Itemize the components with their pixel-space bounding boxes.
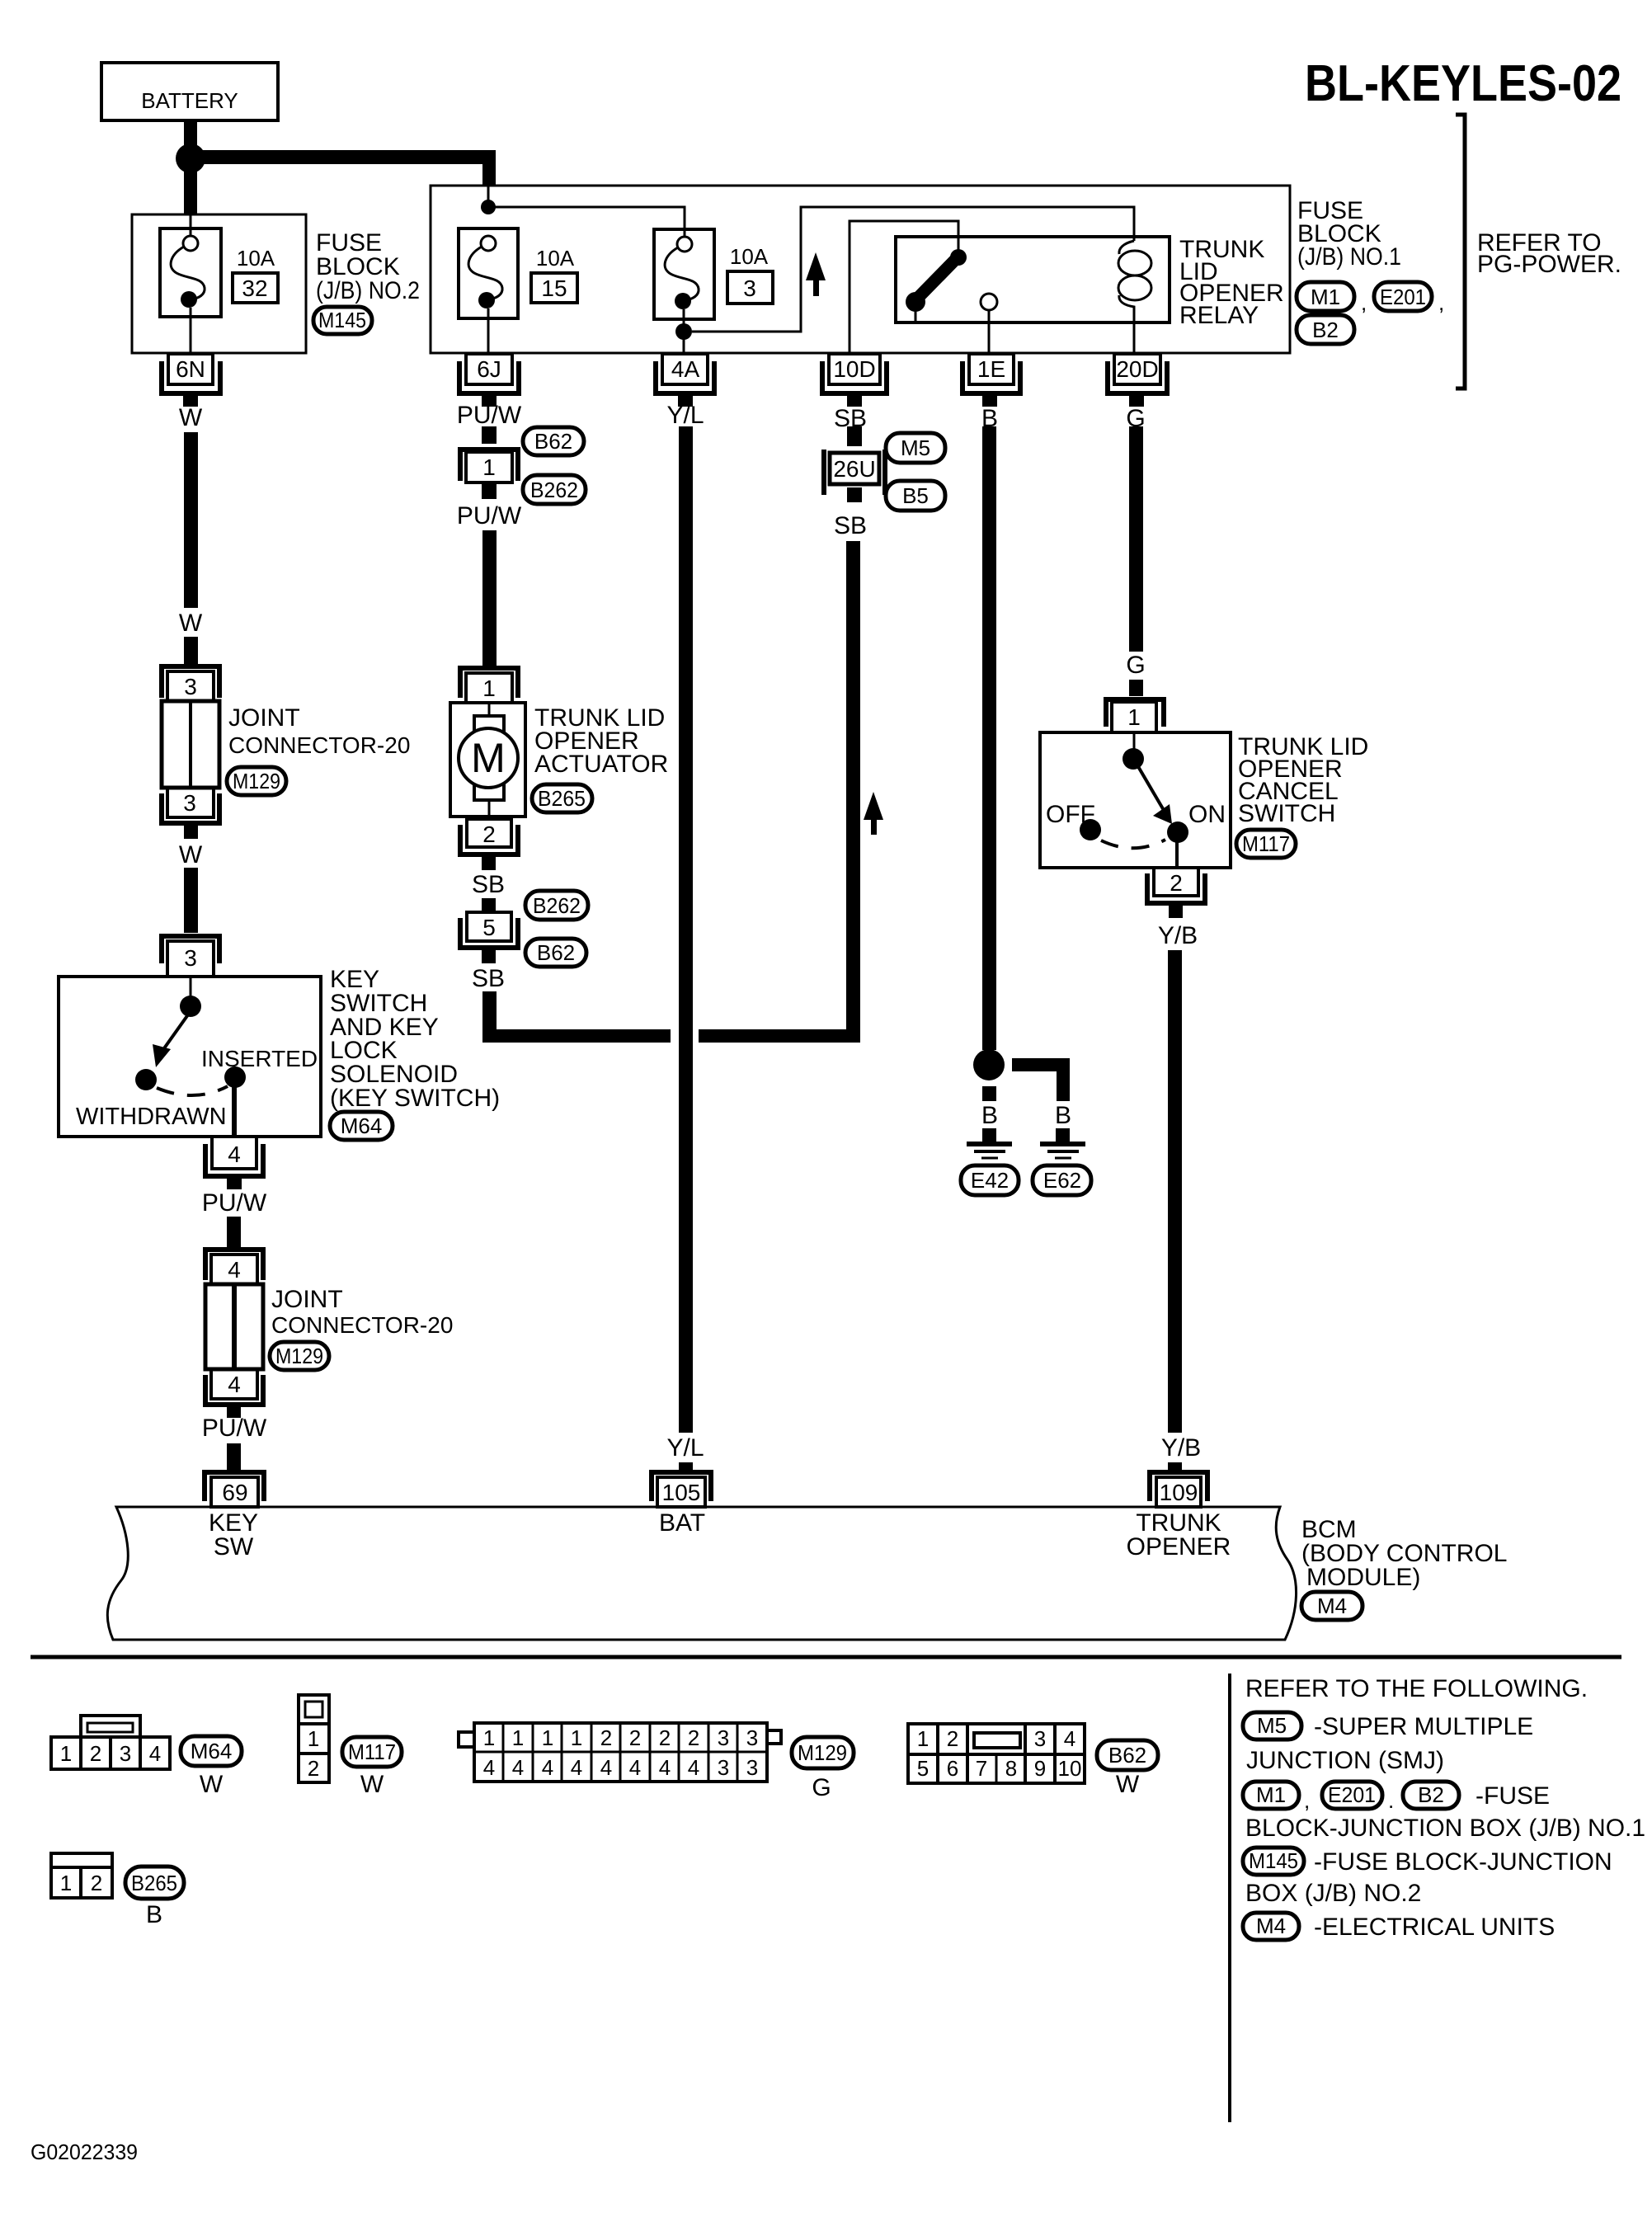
- svg-text:6J: 6J: [477, 356, 501, 382]
- svg-text:OFF: OFF: [1046, 801, 1095, 828]
- connector 26U smj: [824, 450, 885, 502]
- svg-text:20D: 20D: [1116, 356, 1158, 382]
- svg-text:PG-POWER.: PG-POWER.: [1477, 251, 1621, 278]
- svg-text:M145: M145: [1249, 1848, 1298, 1873]
- svg-text:INSERTED: INSERTED: [201, 1046, 318, 1071]
- wire B stub below junction: [982, 1086, 996, 1101]
- svg-text:1E: 1E: [977, 356, 1005, 382]
- svg-text:SB: SB: [834, 512, 867, 539]
- connector B62 oval bottom: [1097, 1740, 1158, 1770]
- svg-text:4: 4: [659, 1755, 671, 1780]
- svg-text:Y/L: Y/L: [666, 402, 704, 429]
- fuse block (J/B) no.1 box: [431, 186, 1290, 353]
- svg-text:BATTERY: BATTERY: [141, 88, 238, 113]
- svg-text:109: 109: [1160, 1480, 1198, 1505]
- connector 6N: [162, 354, 220, 407]
- BCM body control module box: [107, 1507, 1296, 1640]
- svg-text:1: 1: [482, 454, 496, 480]
- svg-text:G02022339: G02022339: [31, 2140, 138, 2164]
- wire SB stub: [482, 898, 496, 912]
- wire PU/W to actuator: [482, 530, 497, 666]
- connector M129 oval lower: [270, 1342, 329, 1370]
- svg-text:6N: 6N: [176, 356, 205, 382]
- svg-text:-SUPER MULTIPLE: -SUPER MULTIPLE: [1314, 1713, 1533, 1740]
- connector 1 actuator: [460, 668, 518, 703]
- cancel switch ON contact: [1167, 821, 1188, 843]
- svg-text:B262: B262: [530, 478, 578, 502]
- svg-text:ON: ON: [1188, 801, 1226, 828]
- svg-text:-FUSE: -FUSE: [1476, 1782, 1550, 1810]
- divider line: [31, 1655, 1621, 1659]
- label fuse block (J/B) no.1: [1297, 197, 1401, 271]
- svg-text:4: 4: [228, 1372, 241, 1397]
- connector M64 oval: [330, 1112, 393, 1140]
- joint connector-20 M129 lower: [205, 1250, 263, 1405]
- connector M5 oval reference: [1243, 1712, 1301, 1739]
- label key switch and key lock solenoid: [330, 966, 500, 1112]
- trunk lid opener relay box: [896, 237, 1170, 322]
- svg-text:SB: SB: [472, 965, 505, 992]
- connector E42 oval: [961, 1165, 1019, 1195]
- svg-text:3: 3: [183, 790, 196, 816]
- wire pin 1 to pivot: [1133, 732, 1136, 749]
- trunk lid opener cancel switch box: [1040, 732, 1231, 868]
- relay NO contact (open circle): [981, 294, 997, 310]
- svg-text:B265: B265: [131, 1871, 177, 1895]
- svg-text:2: 2: [659, 1725, 671, 1750]
- ground E42: [967, 1144, 1012, 1158]
- wire junction down to fuse block no.2: [184, 165, 197, 214]
- relay coil: [1118, 241, 1151, 353]
- svg-text:W: W: [179, 610, 203, 637]
- wire into fuse 32: [190, 214, 192, 237]
- svg-text:M64: M64: [191, 1739, 233, 1763]
- svg-text:JOINT: JOINT: [271, 1286, 343, 1313]
- connector B5 oval: [886, 481, 945, 511]
- connector M117 oval: [1236, 830, 1296, 858]
- wire PU/W to BCM 69: [227, 1443, 241, 1470]
- svg-text:3: 3: [184, 945, 197, 971]
- svg-text:.: .: [1388, 1788, 1394, 1813]
- svg-text:PU/W: PU/W: [202, 1415, 267, 1442]
- wire B to ground E42: [982, 1128, 996, 1142]
- wire W stub below joint connector: [184, 823, 198, 839]
- connector B62 oval: [523, 427, 584, 455]
- svg-text:CONNECTOR-20: CONNECTOR-20: [228, 732, 410, 758]
- key switch inserted contact: [224, 1066, 246, 1088]
- wire pin 3 to pivot: [190, 977, 192, 996]
- svg-text:4: 4: [512, 1755, 524, 1780]
- connector 1 cancel switch: [1106, 699, 1164, 732]
- bracket refer to pg-power: [1456, 115, 1465, 388]
- connector B262 oval lower: [525, 891, 588, 920]
- svg-text:3: 3: [1034, 1726, 1046, 1751]
- svg-text:15: 15: [541, 275, 567, 301]
- svg-text:2: 2: [629, 1725, 641, 1750]
- svg-text:RELAY: RELAY: [1179, 302, 1259, 329]
- svg-text:B: B: [146, 1901, 162, 1928]
- svg-text:M5: M5: [1257, 1713, 1287, 1738]
- connector 6J: [459, 354, 519, 407]
- svg-text:B2: B2: [1418, 1782, 1444, 1807]
- svg-text:(J/B) NO.2: (J/B) NO.2: [316, 277, 420, 304]
- svg-text:4: 4: [228, 1257, 241, 1283]
- svg-text:W: W: [179, 404, 203, 431]
- connector B262 oval: [523, 475, 586, 504]
- svg-text:B62: B62: [1108, 1743, 1146, 1768]
- connector E62 oval: [1033, 1165, 1091, 1195]
- svg-text:4: 4: [1064, 1726, 1075, 1751]
- svg-text:-FUSE BLOCK-JUNCTION: -FUSE BLOCK-JUNCTION: [1314, 1848, 1612, 1876]
- svg-text:B5: B5: [902, 483, 929, 508]
- fuse block (J/B) no.2 M145 box: [132, 214, 306, 353]
- wire G stub: [1129, 680, 1143, 696]
- svg-text:4: 4: [483, 1755, 495, 1780]
- svg-text:M4: M4: [1256, 1914, 1286, 1938]
- connector 69 on BCM: [205, 1472, 264, 1507]
- battery: [101, 63, 278, 120]
- svg-text:B: B: [981, 1102, 998, 1129]
- svg-text:5: 5: [917, 1756, 929, 1781]
- svg-text:2: 2: [688, 1725, 699, 1750]
- wire NO contact to 1E: [988, 310, 991, 353]
- wire from 4A junction up and right to relay coil: [692, 207, 1134, 332]
- ground E62: [1040, 1144, 1085, 1158]
- svg-text:69: 69: [222, 1480, 247, 1505]
- connector 1E: [962, 354, 1020, 407]
- svg-text:W: W: [1116, 1771, 1140, 1798]
- value box 32: [233, 273, 278, 303]
- label trunk lid opener relay: [1179, 236, 1284, 329]
- svg-text:(J/B) NO.1: (J/B) NO.1: [1297, 243, 1401, 271]
- svg-text:Y/B: Y/B: [1158, 922, 1198, 949]
- connector M145 oval reference: [1243, 1848, 1304, 1875]
- connector table B265: [51, 1853, 112, 1898]
- svg-text:E201: E201: [1380, 285, 1426, 309]
- node B junction: [973, 1049, 1005, 1080]
- label joint connector-20 lower: [271, 1286, 453, 1338]
- svg-text:9: 9: [1034, 1756, 1046, 1781]
- wire G main: [1129, 426, 1143, 652]
- svg-text:8: 8: [1005, 1756, 1017, 1781]
- svg-text:B265: B265: [538, 786, 586, 811]
- wire ON contact down: [1175, 841, 1179, 868]
- wire thick into fuse block no.1: [482, 164, 496, 186]
- connector M64 oval bottom: [181, 1736, 242, 1766]
- key switch arm with arrowhead: [153, 1011, 191, 1067]
- wire PU/W stub 6J column: [482, 426, 497, 444]
- svg-text:26U: 26U: [833, 456, 875, 482]
- cancel switch pivot contact: [1123, 748, 1144, 770]
- wire Y/L main: [679, 426, 693, 1433]
- svg-text:M64: M64: [341, 1113, 383, 1138]
- connector table M117: [299, 1695, 329, 1782]
- connector table M64: [51, 1716, 170, 1769]
- svg-text:M129: M129: [798, 1740, 847, 1765]
- svg-text:1: 1: [542, 1725, 553, 1750]
- wire Y/B main: [1168, 950, 1182, 1433]
- svg-text:Y/L: Y/L: [666, 1434, 704, 1462]
- svg-text:,: ,: [1304, 1788, 1310, 1813]
- svg-text:B262: B262: [533, 893, 581, 918]
- svg-text:,: ,: [1361, 290, 1367, 315]
- connector 20D: [1108, 354, 1167, 407]
- dashed arc key switch: [157, 1086, 228, 1095]
- connector table M129: [459, 1723, 781, 1782]
- wire W stub to joint connector: [184, 637, 198, 664]
- svg-text:M117: M117: [348, 1739, 396, 1764]
- svg-text:10A: 10A: [536, 246, 575, 271]
- svg-text:2: 2: [90, 1741, 101, 1766]
- wire battery junction to fuse block no.1 (thick horizontal): [191, 150, 496, 186]
- connector 109 on BCM: [1150, 1472, 1207, 1507]
- connector table B62: [908, 1724, 1085, 1783]
- svg-text:W: W: [200, 1771, 224, 1798]
- wire W to key switch: [184, 868, 198, 933]
- svg-text:SWITCH: SWITCH: [1238, 800, 1335, 827]
- vertical divider bottom right: [1228, 1674, 1231, 2122]
- svg-text:G: G: [812, 1774, 831, 1801]
- svg-text:BOX (J/B) NO.2: BOX (J/B) NO.2: [1245, 1880, 1421, 1907]
- svg-text:3: 3: [743, 275, 756, 301]
- label KEY SW: [209, 1509, 258, 1561]
- svg-text:W: W: [179, 841, 203, 869]
- wire stub below joint connector 2: [227, 1405, 241, 1418]
- wire battery to junction: [184, 120, 197, 150]
- value box 3: [727, 271, 773, 304]
- label BCM: [1301, 1516, 1507, 1591]
- node battery junction: [176, 144, 205, 173]
- svg-text:2: 2: [1170, 870, 1183, 896]
- svg-text:JUNCTION (SMJ): JUNCTION (SMJ): [1246, 1747, 1444, 1774]
- wire B to ground E62: [1056, 1128, 1070, 1142]
- svg-text:3: 3: [746, 1725, 758, 1750]
- connector M4 oval reference: [1243, 1913, 1299, 1940]
- relay switch top contact: [950, 249, 967, 266]
- svg-text:E42: E42: [971, 1168, 1009, 1193]
- wire junction to fuse 3 top: [488, 207, 685, 237]
- connector B2 oval: [1297, 315, 1354, 344]
- svg-text:4: 4: [688, 1755, 699, 1780]
- svg-text:4: 4: [571, 1755, 582, 1780]
- svg-text:G: G: [1126, 652, 1145, 679]
- connector 1 smj B62/B262: [460, 450, 518, 499]
- wire PU/W to joint connector 2: [227, 1217, 241, 1250]
- svg-text:-ELECTRICAL UNITS: -ELECTRICAL UNITS: [1314, 1914, 1555, 1941]
- svg-text:32: 32: [242, 275, 267, 301]
- svg-text:WITHDRAWN: WITHDRAWN: [76, 1104, 227, 1130]
- svg-text:3: 3: [120, 1741, 131, 1766]
- svg-text:1: 1: [308, 1726, 319, 1751]
- fuse 15 10A: [459, 228, 518, 353]
- label TRUNK OPENER: [1127, 1509, 1231, 1561]
- svg-text:BLOCK-JUNCTION BOX (J/B) NO.1: BLOCK-JUNCTION BOX (J/B) NO.1: [1245, 1815, 1645, 1842]
- connector M145 oval: [313, 307, 372, 334]
- node junction below fuse 3: [675, 323, 692, 340]
- connector M117 oval bottom: [342, 1737, 402, 1767]
- connector B62 oval lower: [525, 939, 586, 967]
- svg-text:4: 4: [600, 1755, 612, 1780]
- connector 2 cancel switch: [1147, 868, 1205, 918]
- connector E201 oval reference: [1322, 1782, 1394, 1813]
- flow arrow up inside fuse block: [806, 252, 826, 296]
- svg-text:REFER TO THE FOLLOWING.: REFER TO THE FOLLOWING.: [1245, 1675, 1588, 1702]
- svg-text:2: 2: [947, 1726, 958, 1751]
- svg-text:1: 1: [571, 1725, 582, 1750]
- value box 15: [531, 273, 577, 303]
- svg-text:CONNECTOR-20: CONNECTOR-20: [271, 1312, 453, 1338]
- svg-text:5: 5: [482, 915, 496, 940]
- motor M actuator: [459, 728, 518, 788]
- svg-text:E201: E201: [1328, 1782, 1376, 1807]
- connector M4 oval: [1301, 1592, 1363, 1620]
- svg-text:7: 7: [976, 1756, 987, 1781]
- svg-text:M4: M4: [1317, 1594, 1347, 1618]
- joint connector-20 M129 upper: [162, 666, 219, 823]
- connector M5 oval: [886, 433, 945, 463]
- svg-text:ACTUATOR: ACTUATOR: [534, 751, 668, 778]
- cancel switch arm with arrowhead: [1137, 764, 1172, 824]
- svg-text:1: 1: [917, 1726, 929, 1751]
- svg-text:3: 3: [746, 1755, 758, 1780]
- svg-text:4: 4: [149, 1741, 161, 1766]
- flow arrow up on SB wire: [864, 792, 883, 835]
- svg-text:4: 4: [629, 1755, 641, 1780]
- svg-text:BL-KEYLES-02: BL-KEYLES-02: [1305, 55, 1621, 112]
- connector 2 actuator: [460, 819, 518, 870]
- connector B2 oval reference: [1403, 1782, 1459, 1809]
- svg-text:PU/W: PU/W: [457, 502, 522, 530]
- svg-text:M129: M129: [275, 1344, 323, 1368]
- connector 4 below key switch: [205, 1137, 263, 1189]
- svg-text:OPENER: OPENER: [1127, 1533, 1231, 1561]
- svg-text:1: 1: [482, 676, 496, 701]
- wire relay switch to 10D: [850, 221, 958, 353]
- svg-text:105: 105: [662, 1480, 701, 1505]
- relay switch arm: [918, 258, 957, 298]
- svg-text:10A: 10A: [730, 244, 769, 269]
- connector B265 oval bottom: [125, 1867, 184, 1899]
- connector 5 smj B262/B62: [460, 912, 518, 963]
- connector M129 oval upper: [227, 767, 286, 795]
- svg-text:2: 2: [600, 1725, 612, 1750]
- fuse 3 10A: [654, 229, 714, 353]
- node junction above fuse 15: [481, 200, 496, 214]
- wire 6J fuse top: [487, 186, 490, 207]
- wire B elbow to E62: [1012, 1058, 1070, 1101]
- svg-text:M117: M117: [1242, 831, 1290, 856]
- connector B265 oval: [532, 784, 592, 812]
- relay switch contact (common): [906, 292, 925, 312]
- svg-text:1: 1: [512, 1725, 524, 1750]
- svg-text:PU/W: PU/W: [202, 1189, 267, 1217]
- connector M129 oval bottom: [792, 1737, 854, 1768]
- svg-text:SW: SW: [214, 1533, 254, 1561]
- svg-text:JOINT: JOINT: [228, 704, 300, 732]
- connector M1 oval: [1297, 282, 1367, 315]
- svg-text:10D: 10D: [833, 356, 875, 382]
- key switch pivot contact: [180, 996, 201, 1017]
- dashed arc cancel switch: [1101, 840, 1165, 848]
- label trunk lid opener cancel switch: [1238, 733, 1368, 827]
- svg-text:6: 6: [947, 1756, 958, 1781]
- svg-text:2: 2: [91, 1871, 102, 1895]
- svg-text:W: W: [360, 1771, 384, 1798]
- svg-text:Y/B: Y/B: [1161, 1434, 1201, 1462]
- connector 105 on BCM: [652, 1472, 711, 1507]
- svg-text:E62: E62: [1043, 1168, 1081, 1193]
- trunk lid opener actuator box: [450, 703, 525, 819]
- svg-text:2: 2: [308, 1756, 319, 1781]
- svg-text:M5: M5: [901, 435, 930, 460]
- svg-text:2: 2: [482, 821, 496, 847]
- svg-text:4A: 4A: [671, 356, 700, 382]
- svg-text:10A: 10A: [237, 246, 275, 271]
- connector E201 oval: [1374, 282, 1444, 315]
- svg-text:,: ,: [1438, 290, 1444, 315]
- svg-text:M: M: [471, 735, 506, 781]
- svg-text:B62: B62: [537, 940, 575, 965]
- svg-text:PU/W: PU/W: [457, 402, 522, 429]
- label refer to pg-power: [1477, 229, 1621, 278]
- svg-text:1: 1: [483, 1725, 495, 1750]
- svg-text:M129: M129: [233, 769, 280, 793]
- svg-text:M1: M1: [1256, 1782, 1286, 1807]
- connector 10D: [822, 354, 887, 407]
- svg-text:B2: B2: [1312, 318, 1339, 342]
- svg-text:B: B: [1055, 1102, 1071, 1129]
- key switch box: [59, 977, 321, 1137]
- svg-text:BAT: BAT: [659, 1509, 705, 1537]
- cancel switch OFF contact: [1080, 819, 1101, 840]
- wire B main: [982, 426, 996, 1050]
- svg-text:(KEY SWITCH): (KEY SWITCH): [330, 1085, 500, 1112]
- wire SB elbow to 10D column: [482, 541, 860, 1043]
- wire Y/L stub to 105: [679, 1462, 693, 1474]
- svg-text:1: 1: [60, 1871, 72, 1895]
- connector 3 key switch pin: [162, 936, 219, 977]
- wire W main: [184, 432, 198, 608]
- svg-text:B62: B62: [534, 429, 572, 454]
- label trunk lid opener actuator: [534, 704, 668, 778]
- svg-text:4: 4: [228, 1142, 241, 1167]
- key switch withdrawn contact: [135, 1069, 157, 1090]
- svg-text:MODULE): MODULE): [1306, 1564, 1420, 1591]
- svg-text:M1: M1: [1311, 285, 1340, 309]
- connector M1 oval reference: [1243, 1782, 1310, 1813]
- label fuse block no.2: [316, 229, 420, 304]
- fuse 32 10A: [160, 228, 221, 353]
- svg-text:1: 1: [60, 1741, 72, 1766]
- svg-text:SB: SB: [472, 871, 505, 898]
- svg-text:3: 3: [718, 1755, 729, 1780]
- svg-text:4: 4: [542, 1755, 553, 1780]
- svg-text:1: 1: [1127, 704, 1141, 730]
- label joint connector-20 upper: [228, 704, 410, 758]
- svg-text:10: 10: [1058, 1756, 1082, 1781]
- svg-text:3: 3: [718, 1725, 729, 1750]
- wire common contact to relay frame: [915, 311, 917, 322]
- svg-text:3: 3: [184, 674, 197, 699]
- svg-text:M145: M145: [318, 308, 366, 332]
- wire inserted contact down: [232, 1080, 237, 1137]
- wire Y/B stub to 109: [1168, 1462, 1182, 1474]
- connector 4A: [656, 354, 714, 407]
- wire SB stub 10D column: [847, 426, 862, 446]
